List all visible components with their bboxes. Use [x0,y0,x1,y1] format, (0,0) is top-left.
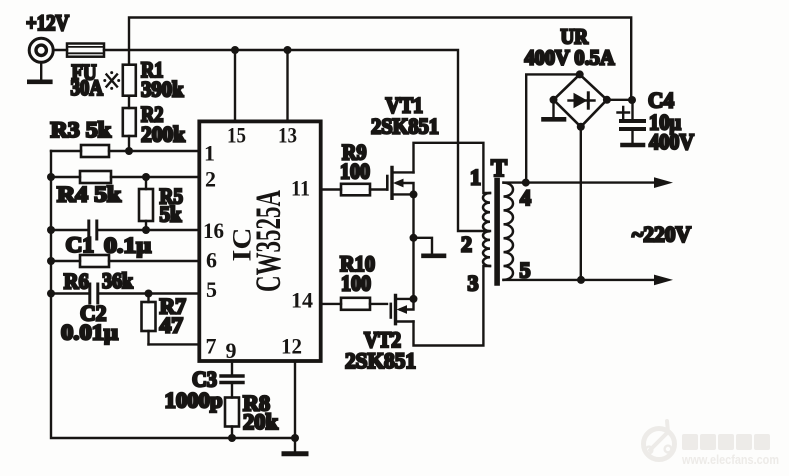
wire: output line tap 5 with arrow [504,275,674,286]
ground (below pin 12) [284,451,306,456]
node: bridge left vertex [550,96,558,104]
wire: VT1 drain to tap 1 [414,143,491,193]
svg-text:2: 2 [461,232,472,257]
resistor R5 [139,177,153,230]
node: rail / pin2 [47,173,55,181]
node: VT1 source [410,190,418,198]
svg-text:400V: 400V [649,129,694,154]
svg-text:100: 100 [340,159,370,184]
svg-text:R6: R6 [64,269,89,294]
resistor R4 [80,171,111,183]
svg-text:5: 5 [206,277,217,302]
capacitor C4 [621,100,644,143]
capacitor C2 [90,284,98,303]
resistor R1 [123,65,136,96]
svg-text:6: 6 [206,248,217,273]
wire: pin 15 drop [234,50,236,121]
resistor R7 [142,294,156,345]
IC pin labels [203,123,313,364]
wire: output line tap 4 with arrow [504,177,674,188]
resistor R10 [341,298,370,310]
transformer core [494,181,500,284]
transistor Q1 VT1 2SK851 [387,168,413,199]
wire: pin 5 line [51,292,199,294]
svg-text:4: 4 [520,185,531,210]
fuse FU [67,44,104,57]
node: C4 top / feedback [628,96,636,104]
wire: left rail and bottom wire [51,151,295,438]
node: bridge right vertex [603,96,611,104]
svg-text:R4 5k: R4 5k [57,182,122,207]
wire: R1 to R2 [128,96,130,108]
wire: terminal to fuse [53,49,67,51]
svg-text:400V 0.5A: 400V 0.5A [525,45,616,69]
label FU 30A [71,59,104,100]
svg-text:36k: 36k [102,268,134,293]
svg-text:2SK851: 2SK851 [371,114,439,139]
IC U1 CW3525A [199,121,320,361]
label VT1 2SK851 [371,93,439,139]
svg-text:20k: 20k [243,409,279,434]
svg-text:1000p: 1000p [165,388,223,413]
svg-text:CW3525A: CW3525A [248,190,288,292]
node: bridge bottom vertex [577,123,585,131]
svg-text:C1: C1 [66,232,95,257]
IC name IC CW3525A (rotated) [228,190,289,292]
node: pin15 drop on +12V rail [231,46,239,54]
resistor R6 [80,255,109,267]
svg-text:14: 14 [291,288,313,313]
node: rail / pin6 [47,257,55,265]
reference mark [103,71,120,90]
capacitor C4 polarity + [618,107,630,118]
node: rail / pin16 [47,226,55,234]
svg-text:+12V: +12V [26,10,69,35]
wire: VT2 drain to tap 3 [414,266,491,346]
svg-text:5: 5 [520,257,531,282]
transistor Q2 VT2 2SK851 [391,296,414,324]
svg-text:www.elecfans.com: www.elecfans.com [681,452,779,467]
svg-text:13: 13 [278,123,297,148]
svg-text:R3 5k: R3 5k [51,117,112,142]
label R1 390k [141,57,184,102]
svg-text:200k: 200k [141,122,186,147]
capacitor C3 [221,376,243,383]
wire: pin 1 line [51,150,199,152]
svg-text:30A: 30A [71,75,104,100]
transformer T secondary winding [504,183,514,280]
svg-text:9: 9 [226,338,237,363]
wire: pin 14 line [321,303,387,305]
wire: pin 7 line [149,343,200,345]
watermark [644,421,780,467]
wire: pin 11 line [321,188,388,190]
svg-text:15: 15 [227,123,246,148]
label R2 200k [141,102,186,147]
wire: +12V rail to transformer center tap [104,50,490,231]
ground (below +12V terminal) [29,63,50,82]
+12V input terminal [29,38,53,62]
node: pin13 drop on +12V rail [284,46,292,54]
wire: bridge top vertex to tap4 line [526,74,580,182]
ground (bridge left vertex) [544,100,565,120]
label R6 36k [64,268,134,294]
capacitor C1 [89,221,97,239]
wire: pin 6 line [51,260,199,262]
node: VT2 source [410,295,418,303]
wire: bridge right vertex to C4 node [607,99,633,101]
bridge rectifier UR [554,74,607,126]
label R9 100 [340,140,370,184]
resistor R8 [225,398,239,427]
wire: pin 9 drop [231,361,233,375]
node: tap5 / bridge feed [577,276,585,284]
node: R7 top [145,290,153,298]
svg-text:12: 12 [281,334,302,359]
svg-text:100: 100 [341,271,371,296]
label R7 47 [160,294,187,338]
node: source rail ground tap [410,234,418,242]
label R10 100 [340,251,375,296]
wire: common source rail [412,194,414,299]
resistor R3 [81,145,109,157]
svg-text:16: 16 [203,218,224,243]
wire: R2 to pin 1 line [128,136,130,151]
label R5 5k [160,184,184,227]
wire: feedback top rail [129,18,631,101]
wire: C3 to R8 [231,384,233,398]
wire: pin 12 drop [294,361,296,452]
node: R5 top [142,173,150,181]
wire: pin 2 line [51,176,199,178]
node: pin12 / bottom wire [291,434,299,442]
svg-text:1: 1 [470,165,481,190]
svg-text:5k: 5k [160,202,183,227]
svg-text:47: 47 [160,313,184,338]
svg-text:T: T [491,156,507,182]
svg-text:0.01μ: 0.01μ [61,320,119,345]
ground (C4 bottom) [623,143,644,148]
label C4 10u 400V [648,88,694,155]
wire: pin 16 line [51,229,199,231]
resistor R2 [123,108,136,136]
resistor R9 [341,184,370,196]
node: bridge top vertex [576,70,584,78]
svg-text:2SK851: 2SK851 [345,348,416,373]
label R8 20k [243,391,279,435]
wire: bridge bottom vertex to tap5 line [580,127,582,280]
label UR 400V 0.5A [525,24,616,69]
label VT2 2SK851 [345,327,416,373]
wire: R8 to bottom wire [231,427,233,439]
wire: pin 13 drop [286,50,288,121]
node: rail / pin5 [47,290,55,298]
node: R5 bottom [142,226,150,234]
svg-text:2: 2 [205,167,216,192]
svg-text:1: 1 [204,141,215,166]
label C3 1000p [165,367,223,413]
svg-text:3: 3 [468,271,479,296]
svg-text:390k: 390k [141,77,184,102]
node: tap4 / bridge feed [522,179,530,187]
label C2 0.01u [61,301,119,345]
svg-text:7: 7 [206,334,217,359]
svg-text:~220V: ~220V [632,222,691,247]
label C1 0.1u [66,232,152,258]
node: R2 / pin1 junction [125,147,133,155]
transformer T primary winding [483,193,490,266]
svg-text:0.1μ: 0.1μ [104,233,152,258]
svg-text:11: 11 [291,176,310,201]
node: R8 bottom [228,434,236,442]
ground (MOSFET sources) [414,238,445,256]
